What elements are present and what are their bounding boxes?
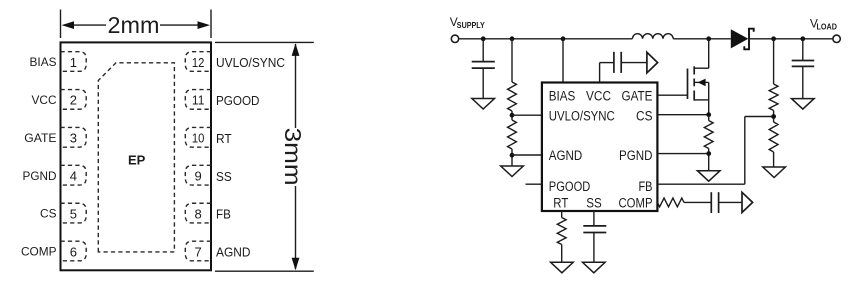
svg-text:FB: FB — [216, 208, 231, 222]
svg-text:BIAS: BIAS — [30, 55, 57, 69]
svg-text:GATE: GATE — [24, 131, 56, 145]
svg-text:12: 12 — [192, 55, 205, 70]
svg-text:PGOOD: PGOOD — [549, 179, 591, 194]
svg-text:RT: RT — [216, 132, 232, 146]
svg-text:5: 5 — [70, 206, 77, 221]
svg-text:SUPPLY: SUPPLY — [457, 20, 485, 30]
svg-text:8: 8 — [195, 206, 202, 221]
svg-text:FB: FB — [639, 179, 653, 194]
svg-text:9: 9 — [195, 169, 202, 184]
svg-text:7: 7 — [195, 244, 202, 259]
svg-text:SS: SS — [216, 170, 232, 184]
svg-text:4: 4 — [70, 169, 77, 184]
svg-text:EP: EP — [128, 152, 146, 167]
svg-text:CS: CS — [40, 207, 57, 221]
svg-text:3: 3 — [70, 131, 77, 146]
svg-text:PGOOD: PGOOD — [216, 94, 260, 108]
svg-text:VCC: VCC — [586, 88, 611, 103]
svg-text:PGND: PGND — [23, 169, 57, 183]
svg-text:UVLO/SYNC: UVLO/SYNC — [216, 56, 285, 70]
svg-text:CS: CS — [636, 109, 653, 124]
svg-text:6: 6 — [70, 244, 77, 259]
svg-text:COMP: COMP — [21, 245, 57, 259]
svg-text:2: 2 — [70, 93, 77, 108]
svg-text:COMP: COMP — [619, 196, 653, 211]
svg-text:LOAD: LOAD — [817, 21, 837, 31]
svg-text:GATE: GATE — [622, 88, 653, 103]
svg-text:PGND: PGND — [619, 148, 653, 163]
svg-text:10: 10 — [192, 131, 205, 146]
svg-text:11: 11 — [192, 93, 205, 108]
svg-text:VCC: VCC — [32, 93, 57, 107]
svg-text:AGND: AGND — [549, 148, 583, 163]
svg-text:SS: SS — [586, 196, 602, 211]
svg-text:3mm: 3mm — [280, 128, 306, 186]
svg-text:2mm: 2mm — [108, 12, 160, 38]
svg-text:BIAS: BIAS — [549, 88, 576, 103]
svg-text:1: 1 — [70, 55, 77, 70]
svg-text:UVLO/SYNC: UVLO/SYNC — [549, 109, 615, 124]
svg-text:AGND: AGND — [216, 246, 251, 260]
svg-text:RT: RT — [553, 196, 568, 211]
